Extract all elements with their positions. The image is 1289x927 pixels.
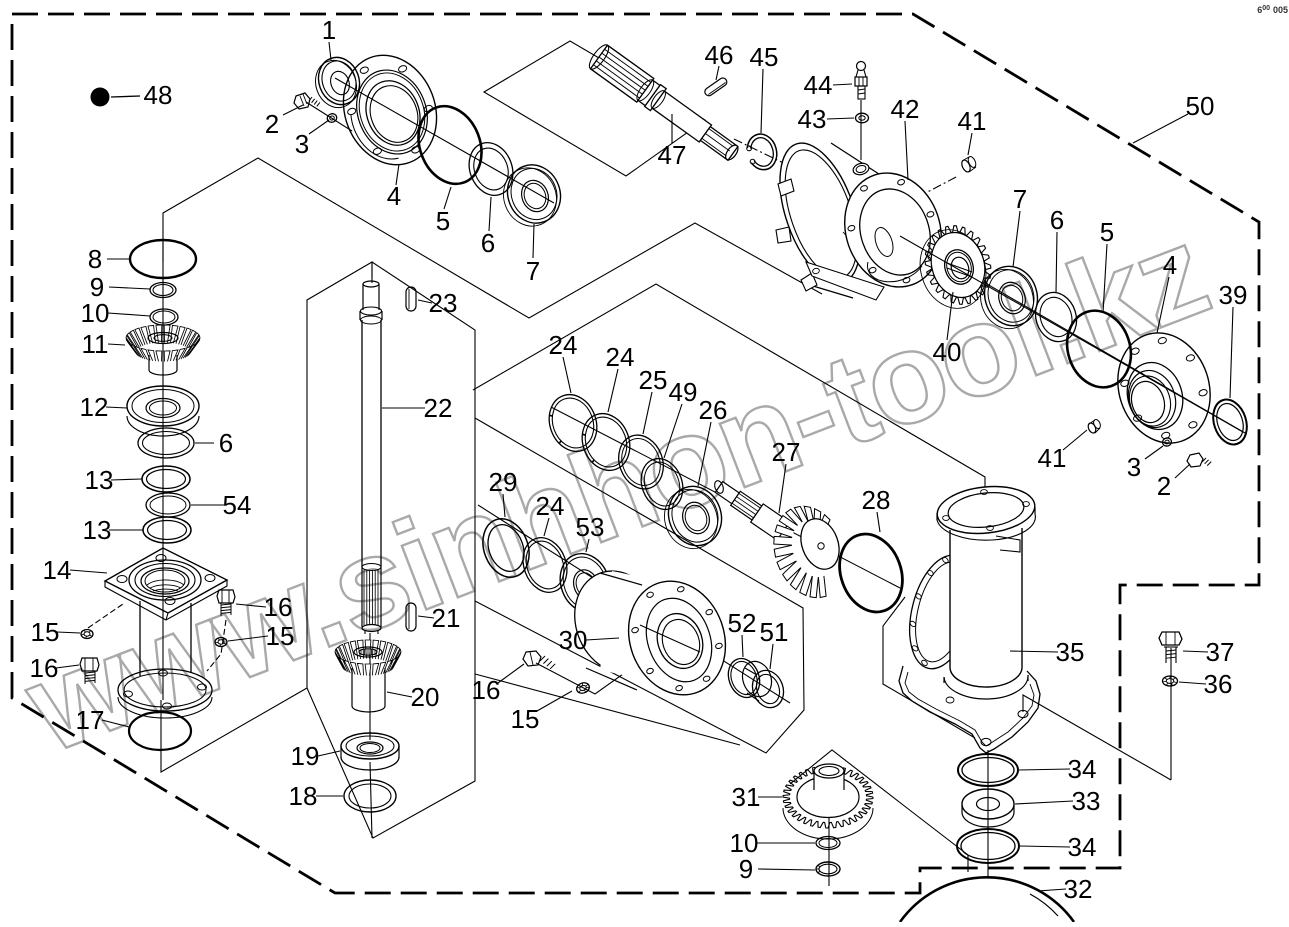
shaft 22 — [360, 281, 382, 634]
nut 3 — [326, 112, 338, 123]
svg-text:7: 7 — [1013, 184, 1027, 214]
label 3 — [1127, 446, 1163, 482]
label 9 — [90, 272, 150, 302]
svg-text:4: 4 — [1163, 250, 1177, 280]
bearing 53 — [552, 547, 618, 620]
svg-text:15: 15 — [31, 617, 60, 647]
plug 41 lower — [1087, 418, 1102, 434]
svg-text:29: 29 — [489, 467, 518, 497]
svg-text:44: 44 — [804, 70, 833, 100]
ring 18 — [344, 780, 396, 812]
svg-text:12: 12 — [80, 392, 109, 422]
label 36 — [1179, 669, 1232, 699]
seal 13 a — [142, 466, 190, 492]
label 33 — [1015, 786, 1100, 816]
bolt 16 upper — [217, 590, 235, 616]
bolt 16 left — [80, 658, 99, 684]
dash-dot plug 41 — [918, 176, 958, 197]
label 4 — [387, 164, 401, 211]
washer 43 — [856, 113, 869, 123]
o-ring 5 right — [1057, 302, 1140, 395]
label 48 — [144, 80, 173, 110]
label 41 — [1038, 430, 1087, 473]
label 49 — [664, 377, 697, 458]
axis gear 31 chain — [828, 800, 830, 886]
label 5 — [436, 187, 451, 236]
o-ring 8 — [130, 240, 196, 278]
label 9 — [739, 854, 815, 884]
label 12 — [80, 392, 127, 422]
label 5 — [1100, 217, 1114, 313]
plug 41 top — [960, 155, 977, 173]
svg-text:41: 41 — [1038, 443, 1067, 473]
axis 29-53-30 chain — [478, 505, 790, 703]
svg-text:7: 7 — [526, 256, 540, 286]
axis shaft 22 top — [371, 262, 373, 283]
svg-text:9: 9 — [739, 854, 753, 884]
bolt 16 lower left — [523, 651, 555, 669]
washer 6 — [462, 136, 521, 201]
group box (input shaft set) — [484, 41, 705, 176]
label 20 — [387, 682, 439, 712]
bearing 1 — [309, 52, 366, 114]
label 26 — [698, 395, 727, 486]
group box (housing 30 set) — [475, 418, 804, 753]
svg-text:39: 39 — [1219, 280, 1248, 310]
label 15 — [511, 691, 572, 734]
label 3 — [295, 120, 329, 159]
bolt 2 — [294, 93, 320, 109]
svg-text:15: 15 — [511, 704, 540, 734]
svg-text:10: 10 — [81, 298, 110, 328]
watermark www.sinhhon-tool.kz — [8, 199, 1225, 781]
label 16 — [30, 653, 79, 683]
label 6 — [195, 428, 233, 458]
label 25 — [639, 365, 668, 434]
svg-text:52: 52 — [728, 608, 757, 638]
label 15 — [228, 621, 294, 651]
axis right chain — [890, 228, 1245, 433]
label 13 — [85, 465, 142, 495]
svg-text:16: 16 — [30, 653, 59, 683]
housing 35 — [899, 482, 1040, 753]
label 31 — [732, 782, 782, 812]
group box (vertical shaft 22 set) — [307, 262, 475, 838]
label 21 — [418, 603, 460, 633]
svg-text:28: 28 — [862, 485, 891, 515]
group lines (gear 31 set) — [790, 750, 968, 872]
snap ring 24 c — [516, 532, 575, 599]
svg-text:24: 24 — [606, 342, 635, 372]
svg-text:2: 2 — [265, 109, 279, 139]
lock washer 15 upper — [215, 638, 227, 647]
axis bolt 2 — [306, 102, 352, 131]
svg-text:54: 54 — [223, 490, 252, 520]
svg-text:42: 42 — [891, 94, 920, 124]
axis fitting 44 — [860, 100, 862, 160]
label 8 — [88, 244, 130, 274]
group line near housing 35 — [883, 597, 975, 738]
svg-text:3: 3 — [1127, 452, 1141, 482]
axis through housing 30 bore — [640, 625, 700, 652]
bearing 19 — [341, 733, 399, 770]
label 39 — [1219, 280, 1248, 398]
svg-text:11: 11 — [82, 329, 109, 359]
svg-text:3: 3 — [295, 129, 309, 159]
snap ring 9 — [150, 283, 176, 298]
label 41 — [958, 106, 987, 155]
label 44 — [804, 70, 852, 100]
svg-text:33: 33 — [1072, 786, 1101, 816]
housing 42 — [764, 133, 956, 300]
collar 33 — [962, 789, 1014, 827]
snap ring 45 — [747, 134, 777, 170]
label 2 — [1157, 464, 1190, 501]
bearing 7 right — [973, 259, 1045, 335]
nut 3 lower — [1161, 437, 1172, 448]
washer 6 right — [1029, 287, 1082, 347]
flange 4 right — [1104, 321, 1224, 455]
label 43 — [798, 104, 854, 134]
svg-text:6: 6 — [481, 228, 495, 258]
svg-text:35: 35 — [1056, 637, 1085, 667]
svg-text:13: 13 — [85, 465, 114, 495]
bevel gear 20 — [335, 640, 401, 712]
label 29 — [489, 467, 518, 517]
snap ring 24 a — [541, 388, 604, 458]
group box (middle chain set) — [473, 284, 985, 487]
svg-text:47: 47 — [658, 140, 687, 170]
snap ring 34 a — [958, 754, 1018, 786]
ring 10 lower — [816, 837, 840, 850]
seal 39 — [1208, 395, 1253, 449]
svg-text:46: 46 — [705, 40, 734, 70]
lock washer 15 lower — [575, 681, 591, 695]
svg-text:43: 43 — [798, 104, 827, 134]
shaft 47 — [586, 42, 740, 162]
label 15 — [31, 617, 80, 647]
axis rings 18 — [370, 762, 372, 838]
svg-text:37: 37 — [1206, 637, 1235, 667]
label 51 — [760, 617, 789, 669]
svg-text:50: 50 — [1186, 91, 1215, 121]
svg-text:24: 24 — [549, 330, 578, 360]
svg-text:1: 1 — [322, 15, 336, 45]
group box bottom edge — [475, 674, 740, 745]
spur gear 31 — [783, 764, 873, 839]
svg-text:51: 51 — [760, 617, 789, 647]
bolt 37 — [1159, 632, 1182, 663]
svg-text:15: 15 — [266, 621, 295, 651]
axis bolt 16 chain — [536, 662, 640, 694]
label 46 — [705, 40, 734, 80]
group line to ring 17 — [161, 688, 307, 772]
label 6 — [1050, 205, 1064, 293]
svg-text:6: 6 — [219, 428, 233, 458]
label 10 — [81, 298, 150, 328]
axis gear 20 — [369, 633, 371, 740]
svg-text:22: 22 — [424, 393, 453, 423]
svg-text:5: 5 — [1100, 217, 1114, 247]
label 32 — [1038, 874, 1092, 904]
ring 52 — [723, 654, 765, 702]
dash-dot bolts 15/16 right — [207, 620, 226, 671]
label 54 — [191, 490, 251, 520]
label 16 — [472, 664, 524, 705]
label 34 — [1020, 832, 1096, 862]
axis left chain — [162, 240, 164, 700]
label 1 — [322, 15, 336, 60]
axis through housing 42 opening — [900, 236, 1243, 432]
label 7 — [526, 224, 540, 286]
svg-text:53: 53 — [576, 512, 605, 542]
svg-text:14: 14 — [43, 555, 72, 585]
pinion shaft with bevel gear 27 — [713, 480, 846, 598]
svg-text:6: 6 — [1050, 205, 1064, 235]
svg-text:18: 18 — [289, 781, 318, 811]
collar 51 — [738, 657, 789, 712]
label 11 — [82, 329, 126, 359]
label 23 — [418, 288, 457, 318]
label 52 — [728, 608, 757, 657]
label 4 — [1157, 250, 1177, 333]
o-ring 5 — [408, 97, 493, 193]
label 37 — [1183, 637, 1234, 667]
label 10 — [730, 828, 815, 858]
dash-dot bolts 15/16 left — [88, 604, 123, 628]
lock washer 15 left — [81, 630, 93, 639]
key 46 — [703, 76, 728, 97]
label 2 — [265, 105, 303, 139]
svg-text:17: 17 — [76, 705, 105, 735]
group boundary zigzag (parts 8 group) — [163, 158, 822, 318]
ring 25 — [611, 429, 670, 495]
svg-text:4: 4 — [387, 181, 401, 211]
svg-text:27: 27 — [772, 437, 801, 467]
svg-text:005: 005 — [1273, 5, 1288, 15]
svg-text:48: 48 — [144, 80, 173, 110]
svg-text:21: 21 — [432, 603, 461, 633]
bolt 2 lower — [1187, 453, 1211, 467]
axis top chain — [335, 78, 554, 203]
ring 10 — [150, 309, 178, 325]
leader line for bolt 37 mounting — [1023, 695, 1171, 780]
label 42 — [891, 94, 920, 180]
label 30 — [559, 625, 619, 655]
svg-text:25: 25 — [639, 365, 668, 395]
key 21 — [406, 603, 416, 631]
black dot item 48 — [91, 88, 110, 107]
ring 49 — [634, 453, 689, 516]
seal 29 — [475, 512, 537, 583]
label 45 — [750, 42, 779, 133]
dash-dot shaft 47 to ring 45 — [734, 139, 802, 172]
grease fitting 44 — [855, 62, 867, 100]
svg-text:45: 45 — [750, 42, 779, 72]
label 35 — [1010, 637, 1084, 667]
svg-text:23: 23 — [429, 288, 458, 318]
ring 54 — [146, 493, 190, 517]
svg-text:31: 31 — [732, 782, 761, 812]
svg-text:16: 16 — [264, 592, 293, 622]
label 18 — [289, 781, 343, 811]
label 27 — [772, 437, 801, 513]
snap ring 9 lower — [816, 862, 840, 876]
label 24 — [536, 491, 565, 536]
bevel gear 11 — [126, 325, 200, 375]
label 16 — [236, 592, 292, 622]
label 34 — [1019, 754, 1096, 784]
bearing 26 — [656, 479, 729, 556]
svg-text:41: 41 — [958, 106, 987, 136]
bearing 7 — [495, 157, 569, 234]
svg-text:34: 34 — [1068, 754, 1097, 784]
housing 30 — [561, 559, 741, 709]
svg-text:34: 34 — [1068, 832, 1097, 862]
label 7 — [1013, 184, 1027, 267]
snap ring 24 b — [574, 407, 637, 477]
flange housing 14 — [105, 548, 227, 718]
svg-text:5: 5 — [436, 206, 450, 236]
label 47 — [658, 114, 687, 170]
label 19 — [291, 741, 340, 771]
svg-text:13: 13 — [83, 515, 112, 545]
svg-text:36: 36 — [1204, 669, 1233, 699]
o-ring 17 — [129, 712, 191, 750]
label 17 — [76, 705, 129, 735]
svg-text:30: 30 — [559, 625, 588, 655]
label 40 — [933, 292, 962, 367]
svg-text:24: 24 — [536, 491, 565, 521]
gear 40 — [910, 221, 996, 317]
flange 4 — [328, 42, 452, 179]
lock washer 36 — [1163, 676, 1178, 686]
key 23 — [406, 287, 416, 311]
svg-text:20: 20 — [411, 682, 440, 712]
label 24 — [606, 342, 635, 412]
svg-text:49: 49 — [669, 377, 698, 407]
axis middle chain — [551, 407, 900, 588]
label 14 — [43, 555, 107, 585]
label 24 — [549, 330, 578, 393]
washer 6 left — [138, 428, 194, 458]
svg-text:32: 32 — [1064, 874, 1093, 904]
label 13 — [83, 515, 143, 545]
label 53 — [576, 512, 605, 552]
svg-text:16: 16 — [472, 675, 501, 705]
svg-text:19: 19 — [291, 741, 320, 771]
label 50 — [1133, 91, 1214, 143]
snap ring 34 b — [957, 829, 1019, 863]
label 28 — [862, 485, 891, 532]
seal ring 32 arc — [900, 877, 1074, 922]
svg-text:2: 2 — [1157, 471, 1171, 501]
label 6 — [481, 197, 495, 258]
axis rings 34 — [987, 750, 989, 878]
svg-text:26: 26 — [699, 395, 728, 425]
seal 13 b — [143, 517, 191, 543]
o-ring 28 — [829, 525, 913, 621]
svg-text:8: 8 — [88, 244, 102, 274]
svg-text:40: 40 — [933, 337, 962, 367]
bearing 12 — [127, 386, 199, 436]
label 22 — [382, 393, 452, 423]
